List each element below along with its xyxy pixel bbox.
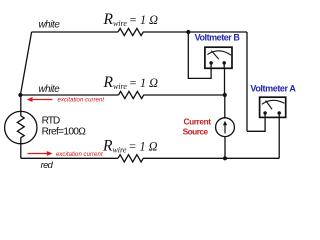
wire voltmeter B right lead xyxy=(224,68,226,95)
voltmeter B terminal stub left xyxy=(210,63,212,68)
resistor R_wire bottom xyxy=(118,155,143,162)
wire voltmeter B left lead xyxy=(188,32,211,78)
voltmeter A terminal stub right xyxy=(278,113,280,117)
svg-text:Rref=100Ω: Rref=100Ω xyxy=(42,126,87,137)
svg-text:excitation current: excitation current xyxy=(56,152,103,158)
svg-text:RTD: RTD xyxy=(42,116,61,127)
voltmeter B box U1 xyxy=(205,47,232,68)
wire top (white lead) left segment xyxy=(32,31,118,33)
svg-text:Rwire = 1 Ω: Rwire = 1 Ω xyxy=(103,11,159,28)
voltmeter A meter arc xyxy=(262,100,285,104)
voltmeter B terminal right xyxy=(222,61,226,65)
wire voltmeter A right lead xyxy=(278,117,280,158)
RTD vertical stub bottom xyxy=(20,138,22,159)
voltmeter A needle xyxy=(266,101,273,110)
node junction dot RTD top xyxy=(18,93,22,97)
RTD sensor circle xyxy=(5,111,37,143)
wire middle (white lead) left segment xyxy=(20,94,118,96)
RTD internal resistor zigzag xyxy=(17,116,24,138)
voltmeter B terminal left xyxy=(209,61,213,65)
svg-text:Voltmeter B: Voltmeter B xyxy=(195,33,241,43)
excitation current arrow (bottom, pointing right) xyxy=(28,153,48,155)
node junction dot bottom wire xyxy=(223,156,227,160)
svg-text:Current: Current xyxy=(184,116,212,126)
voltmeter A box U2 xyxy=(260,97,286,117)
wire voltmeter A left lead xyxy=(247,117,265,131)
wire middle right segment xyxy=(144,94,225,96)
resistor R_wire middle xyxy=(119,91,144,98)
voltmeter A terminal left xyxy=(263,111,267,115)
svg-text:red: red xyxy=(41,160,54,170)
voltmeter B needle xyxy=(211,51,219,60)
svg-text:excitation current: excitation current xyxy=(58,98,105,104)
wire current source to bottom wire xyxy=(224,137,226,159)
wire from middle node down to current source xyxy=(224,95,226,118)
svg-text:Voltmeter A: Voltmeter A xyxy=(250,84,296,94)
voltmeter B terminal stub right xyxy=(223,63,225,68)
wire top right segment xyxy=(143,31,247,33)
svg-text:white: white xyxy=(38,84,60,95)
svg-text:Rwire = 1 Ω: Rwire = 1 Ω xyxy=(102,138,158,155)
wire right vertical down from top wire xyxy=(246,32,248,131)
current source arrow xyxy=(224,124,226,133)
wire bottom (red lead) left segment xyxy=(21,157,118,159)
wire bottom right segment xyxy=(143,157,279,159)
wire diagonal from RTD node to top wire xyxy=(20,32,31,95)
current source I1 circle xyxy=(216,118,235,137)
resistor R_wire top xyxy=(118,28,143,35)
node junction dot on top wire xyxy=(186,30,190,34)
svg-text:Rwire = 1 Ω: Rwire = 1 Ω xyxy=(103,74,159,91)
RTD vertical stub top xyxy=(20,95,22,116)
node junction dot middle wire right xyxy=(223,93,227,97)
svg-text:white: white xyxy=(39,20,61,31)
svg-text:Source: Source xyxy=(183,126,209,136)
voltmeter A terminal stub left xyxy=(264,113,266,117)
voltmeter A terminal right xyxy=(277,111,281,115)
voltmeter B meter arc xyxy=(207,51,231,55)
excitation current arrow (top, pointing left) xyxy=(31,99,53,101)
